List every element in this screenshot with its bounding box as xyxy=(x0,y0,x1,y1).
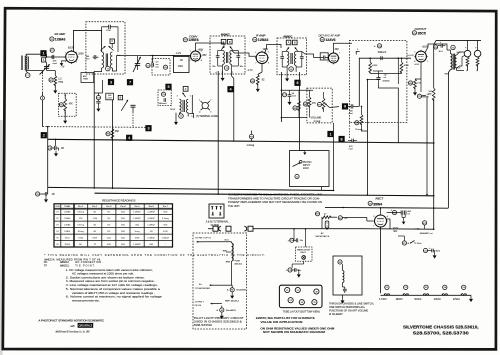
svg-text:VALUE OR APPLICATION: VALUE OR APPLICATION xyxy=(260,321,302,324)
svg-text:(T) TERMINAL GUIDE: (T) TERMINAL GUIDE xyxy=(196,115,218,118)
svg-text:12BA6: 12BA6 xyxy=(64,224,71,227)
resistor 400 ohm line xyxy=(423,221,427,225)
svg-text:with: with xyxy=(70,325,75,328)
capacitor 20mf xyxy=(290,238,294,242)
svg-text:7: 7 xyxy=(339,53,340,55)
V3 cathode resistor 82 xyxy=(250,79,254,83)
B- return bus A xyxy=(48,187,334,190)
svg-text:1: 1 xyxy=(199,100,200,102)
T4 coils xyxy=(287,52,289,66)
diode load line xyxy=(281,89,313,91)
svg-text:4. Line voltage maintained at: 4. Line voltage maintained at 117 volts … xyxy=(66,283,158,287)
svg-text:117V: 117V xyxy=(393,227,399,230)
svg-text:1 meg: 1 meg xyxy=(314,120,321,123)
ground under 47K xyxy=(63,118,67,124)
T3 coils xyxy=(223,51,225,65)
svg-text:1: 1 xyxy=(329,132,331,136)
tap wires xyxy=(231,261,233,285)
svg-text:IF AMP: IF AMP xyxy=(256,33,265,37)
svg-text:ONE SWITCH PERFORMS-ALL: ONE SWITCH PERFORMS-ALL xyxy=(329,306,366,309)
switch S1A xyxy=(402,241,406,245)
terminal boxes A B xyxy=(221,39,226,44)
ground V3 cathode xyxy=(256,87,260,93)
wire V1 plate to T1 xyxy=(74,30,102,52)
svg-text:45Ω: 45Ω xyxy=(107,244,111,246)
wire T3 secondary to V3 grid xyxy=(232,51,257,57)
svg-text:THROUGH CHASSIS & LINE SWITCH,: THROUGH CHASSIS & LINE SWITCH, xyxy=(329,302,374,305)
resistor 150 ohm xyxy=(408,81,412,85)
svg-text:20VAC: 20VAC xyxy=(434,298,441,301)
tube V4 envelope xyxy=(329,53,339,63)
svg-text:1.08KΩ*: 1.08KΩ* xyxy=(147,237,155,239)
V4 plate feed xyxy=(334,43,353,53)
wire screen feed B+ xyxy=(433,99,435,196)
tube layout box xyxy=(279,285,322,307)
svg-text:3. Measured values are from s: 3. Measured values are from socket pin t… xyxy=(66,279,155,283)
svg-text:6: 6 xyxy=(201,51,202,53)
svg-text:TUBE: TUBE xyxy=(64,206,70,208)
terminal guide box xyxy=(209,204,224,218)
heater string wire xyxy=(381,294,472,296)
IF transformer T1 dashed box xyxy=(86,22,125,74)
svg-text:mmf: mmf xyxy=(349,148,353,150)
tube V6 envelope xyxy=(375,215,387,227)
svg-text:5. Nominal tolerance of compo: 5. Nominal tolerance of component values… xyxy=(66,287,161,291)
svg-text:45Ω: 45Ω xyxy=(107,237,111,239)
wire to B+ bus xyxy=(366,80,368,195)
wire AF to output grid xyxy=(359,58,368,106)
svg-text:1.08KΩ*: 1.08KΩ* xyxy=(147,218,155,220)
tube V3 envelope xyxy=(256,52,268,64)
svg-text:2. Socket connections are sho: 2. Socket connections are shown as botto… xyxy=(66,275,145,279)
ground below T3 xyxy=(222,71,224,76)
svg-text:4: 4 xyxy=(414,61,415,63)
AVC return node xyxy=(41,96,45,100)
oscillator box xyxy=(174,57,190,73)
svg-text:TO PIN 7 OF V1: TO PIN 7 OF V1 xyxy=(195,238,212,240)
svg-text:470K: 470K xyxy=(404,65,410,67)
svg-text:AC voltages measured at 1000 o: AC voltages measured at 1000 ohms per vo… xyxy=(72,272,134,276)
svg-text:Pin 1: Pin 1 xyxy=(78,206,84,208)
svg-text:5: 5 xyxy=(76,52,77,54)
heater V5 xyxy=(462,285,466,289)
svg-text:PHONO: PHONO xyxy=(303,162,312,164)
svg-text:0Ω: 0Ω xyxy=(93,231,96,233)
fuse M2 xyxy=(338,216,342,220)
svg-text:NO CONNECTION .: NO CONNECTION . xyxy=(75,261,103,264)
ground below switch box xyxy=(342,295,344,298)
svg-text:26Ω: 26Ω xyxy=(121,212,125,214)
dashed link down xyxy=(348,123,350,140)
T4 designator xyxy=(289,67,294,72)
pin bracket 5 xyxy=(356,51,359,54)
node 9 xyxy=(342,103,348,109)
tube layout sockets xyxy=(285,287,290,292)
variable capacitor C1B osc gang xyxy=(135,63,140,65)
screen dropping resistor xyxy=(432,88,435,101)
svg-text:12BE6: 12BE6 xyxy=(64,218,71,220)
svg-text:2: 2 xyxy=(43,134,45,138)
svg-text:12BA6: 12BA6 xyxy=(64,211,71,214)
svg-text:TO PIN 7: TO PIN 7 xyxy=(195,302,205,304)
svg-text:NC: NC xyxy=(107,231,110,233)
svg-text:1.08KΩ*: 1.08KΩ* xyxy=(147,225,155,227)
boxed label 100mmf xyxy=(106,93,114,100)
wire B- vertical from T1 xyxy=(93,74,95,189)
svg-text:10meg: 10meg xyxy=(78,231,84,233)
svg-text:528.53700: 528.53700 xyxy=(194,324,213,327)
svg-text:7: 7 xyxy=(65,62,66,64)
svg-text:NUMBERS ASSIGNED TO COILS, SWI: NUMBERS ASSIGNED TO COILS, SWITCHES, FUS… xyxy=(228,194,322,197)
wire T4 left leg down xyxy=(280,72,282,122)
AC line to rectifier plate xyxy=(360,228,434,231)
svg-text:OF V6: OF V6 xyxy=(195,305,202,307)
svg-text:DET-AVC-AF AMP: DET-AVC-AF AMP xyxy=(319,33,341,37)
capacitor BLU + xyxy=(441,44,442,48)
svg-text:-6V: -6V xyxy=(180,60,184,62)
svg-text:3: 3 xyxy=(268,63,269,65)
resistor 10 meg grid xyxy=(355,121,359,125)
svg-text:2W: 2W xyxy=(428,93,431,95)
svg-text:SILVERTONE CHASSIS 528.53610,: SILVERTONE CHASSIS 528.53610, xyxy=(403,324,479,330)
printed circuit dashed box xyxy=(349,41,407,123)
resistor 47 ohm AC branch xyxy=(315,212,319,216)
B+ takeoff bus xyxy=(325,206,448,209)
pin bracket 3 xyxy=(189,114,193,119)
capacitor .02 xyxy=(376,78,380,80)
svg-text:BLU: BLU xyxy=(225,240,230,242)
svg-text:TIE POINT.: TIE POINT. xyxy=(75,265,95,268)
svg-text:1: 1 xyxy=(327,53,328,55)
svg-text:30s: 30s xyxy=(240,66,243,68)
ground under 30mf xyxy=(433,253,437,259)
ground below T4 xyxy=(286,72,288,76)
svg-text:NC: NC xyxy=(107,218,110,220)
wire T3 ground-leg to B+ bus xyxy=(217,71,219,194)
svg-text:&#8212;: &#8212; xyxy=(60,265,70,268)
svg-text:39V: 39V xyxy=(335,48,340,51)
svg-text:528.53700, 528.53730: 528.53700, 528.53730 xyxy=(413,331,469,337)
svg-text:48VAC: 48VAC xyxy=(396,298,403,301)
coil L1 designator xyxy=(25,73,30,78)
terminal box A1 xyxy=(183,86,188,91)
svg-text:-1.7V: -1.7V xyxy=(247,70,253,72)
svg-text:7: 7 xyxy=(255,63,256,65)
svg-text:1: 1 xyxy=(65,53,66,55)
svg-text:12BE6: 12BE6 xyxy=(188,38,199,42)
svg-text:1.08KΩ*: 1.08KΩ* xyxy=(162,237,170,239)
svg-text:35W4: 35W4 xyxy=(65,244,71,246)
svg-text:1.08KΩ*: 1.08KΩ* xyxy=(133,212,141,214)
capacitor 470mmf at bus xyxy=(352,139,353,143)
svg-text:50VAC: 50VAC xyxy=(414,298,421,301)
V6 heater string feed xyxy=(380,227,382,293)
T1 designator xyxy=(106,66,111,71)
ground under C3 xyxy=(96,106,100,112)
svg-text:560mmf: 560mmf xyxy=(159,103,167,105)
svg-text:&#169;Howard W. Sams &amp; Co.: &#169;Howard W. Sams &amp; Co., Inc. 196… xyxy=(56,329,90,333)
svg-text:NC: NC xyxy=(107,212,110,214)
node 6 and dropper xyxy=(298,72,300,151)
svg-text:1.08KΩ*: 1.08KΩ* xyxy=(133,218,141,220)
trimmer dashed box xyxy=(152,59,170,75)
svg-text:12AV6: 12AV6 xyxy=(325,38,335,42)
svg-text:V2: V2 xyxy=(297,290,299,292)
svg-text:V1: V1 xyxy=(286,290,288,292)
svg-text:33Ω: 33Ω xyxy=(149,244,153,246)
svg-text:3: 3 xyxy=(76,62,77,64)
variable capacitor C1B gang arrow xyxy=(121,100,128,111)
svg-text:46K: 46K xyxy=(115,130,120,133)
terminal guide spider xyxy=(202,102,208,108)
svg-text:M: M xyxy=(221,310,223,312)
svg-text:1.08KΩ*: 1.08KΩ* xyxy=(133,244,141,246)
svg-text:variation of &#177;15% in volt: variation of &#177;15% in voltage and re… xyxy=(72,291,155,295)
svg-text:mmf: mmf xyxy=(53,63,58,65)
wire stub bus to C4 xyxy=(55,139,57,146)
svg-text:3: 3 xyxy=(373,216,374,218)
terminal box A xyxy=(42,58,46,62)
svg-text:3.3meg: 3.3meg xyxy=(162,218,169,220)
AVC bus (dashed) xyxy=(43,126,147,129)
speaker jacks xyxy=(464,50,471,57)
svg-text:150Ω: 150Ω xyxy=(78,237,83,239)
svg-text:12BA6: 12BA6 xyxy=(258,38,269,42)
svg-text:-1.2V: -1.2V xyxy=(176,53,182,55)
svg-text:26Ω: 26Ω xyxy=(121,237,125,239)
capacitor 50mf cathode xyxy=(417,94,421,98)
svg-text:5: 5 xyxy=(268,52,269,54)
svg-text:A & B (T) TERMINAL: A & B (T) TERMINAL xyxy=(206,219,229,223)
svg-text:1. DC voltage measurements ta: 1. DC voltage measurements taken with va… xyxy=(66,268,153,272)
T1 primary coil xyxy=(102,52,104,68)
svg-text:C: C xyxy=(111,40,113,43)
svg-text:22K: 22K xyxy=(79,218,83,220)
wire volume cold to bus A xyxy=(333,123,335,190)
svg-text:47K: 47K xyxy=(69,103,74,105)
V5 plate to T5 xyxy=(425,44,447,52)
node 2 xyxy=(41,132,47,138)
AC line wire xyxy=(253,228,360,230)
svg-text:GUIDE: GUIDE xyxy=(211,223,220,227)
svg-text:6: 6 xyxy=(296,81,298,85)
B- bus (main horizontal) xyxy=(48,139,434,143)
svg-text:mmf: mmf xyxy=(85,58,89,60)
svg-text:measurements.: measurements. xyxy=(72,298,100,302)
svg-text:BRN: BRN xyxy=(226,262,231,264)
svg-text:35C5: 35C5 xyxy=(65,237,71,239)
wire AVC dropper xyxy=(112,100,114,189)
svg-text:FUNCTIONS OF ON-OFF VOLUME: FUNCTIONS OF ON-OFF VOLUME xyxy=(329,310,368,312)
svg-text:1meg: 1meg xyxy=(135,231,140,233)
svg-text:7: 7 xyxy=(373,226,374,228)
wire: loop top to grid xyxy=(26,53,47,55)
svg-text:1.3meg: 1.3meg xyxy=(247,145,255,147)
T4 slug arrows xyxy=(286,47,289,51)
T3 side capacitors xyxy=(216,56,220,57)
svg-text:455KC: 455KC xyxy=(283,34,292,38)
svg-text:AC: AC xyxy=(321,232,324,235)
capacitor 30mf xyxy=(423,248,427,252)
svg-text:400&#937; int: 400&#937; int xyxy=(420,232,433,235)
T1 secondary coil xyxy=(110,52,112,68)
svg-text:TRIM: TRIM xyxy=(83,79,88,81)
svg-text:70m&#937;: 70m&#937; xyxy=(236,290,247,292)
capacitor 56mmf + ground xyxy=(282,93,286,97)
wire rect misc xyxy=(433,196,435,229)
wire cathode bypass return xyxy=(426,96,429,194)
node 3 xyxy=(108,79,114,85)
B+ bus B xyxy=(95,193,434,196)
svg-text:12BA6: 12BA6 xyxy=(55,37,66,41)
svg-text:1: 1 xyxy=(255,52,256,54)
terminal box B xyxy=(118,95,122,99)
svg-text:INPUT: INPUT xyxy=(303,165,310,167)
svg-text:270K: 270K xyxy=(106,30,112,32)
V5 cathode network xyxy=(420,63,422,79)
svg-text:2: 2 xyxy=(190,60,191,62)
ground at phono jack xyxy=(299,150,304,152)
wire V2 grid line xyxy=(150,55,191,57)
wire diode return xyxy=(281,117,307,119)
coupling capacitor .005 xyxy=(351,104,353,108)
panel lamp xyxy=(302,256,306,260)
svg-text:mmf: mmf xyxy=(108,98,112,100)
svg-text:12VAC: 12VAC xyxy=(453,298,460,301)
V6 plate lead xyxy=(387,219,391,229)
svg-text:1: 1 xyxy=(190,51,191,53)
svg-text:82Ω: 82Ω xyxy=(163,212,167,214)
svg-text:20s: 20s xyxy=(300,240,303,242)
capacitor C11 .05 on A xyxy=(36,192,40,196)
svg-text:460-W-1: 460-W-1 xyxy=(235,263,244,265)
svg-text:18.5V: 18.5V xyxy=(170,109,176,111)
wire T4 secondary to detector xyxy=(302,52,318,58)
svg-text:-.7V: -.7V xyxy=(60,66,65,69)
svg-text:26Ω: 26Ω xyxy=(121,225,125,227)
svg-text:OSC: OSC xyxy=(178,65,183,68)
node 1 (CircuiTrace) xyxy=(40,50,46,56)
capacitor C1 470mmf xyxy=(52,55,54,59)
tube V1 envelope xyxy=(66,51,78,63)
svg-text:1.3M: 1.3M xyxy=(92,218,97,220)
svg-text:26Ω: 26Ω xyxy=(121,231,125,233)
svg-text:JACK: JACK xyxy=(303,167,309,170)
node 4b xyxy=(126,135,132,141)
resistor 470K left xyxy=(369,62,372,73)
resistor 47K AVC filter + dashed box xyxy=(59,93,77,116)
node 5 xyxy=(165,84,171,90)
svg-text:TP: TP xyxy=(44,265,48,268)
svg-text:CIRCUITRACE: CIRCUITRACE xyxy=(79,325,93,328)
filter capacitor C12 xyxy=(392,211,396,215)
svg-text:7: 7 xyxy=(129,81,131,85)
svg-text:3.3meg: 3.3meg xyxy=(77,212,84,214)
svg-text:2: 2 xyxy=(210,100,211,102)
svg-text:500mmf: 500mmf xyxy=(378,52,387,54)
node 7 xyxy=(127,79,133,85)
svg-text:Pin 3: Pin 3 xyxy=(106,206,112,208)
svg-text:trim: trim xyxy=(156,65,160,68)
capacitor 25mf xyxy=(288,268,292,272)
output transformer T5 xyxy=(451,45,455,49)
svg-text:26Ω: 26Ω xyxy=(121,244,125,246)
T5 primary wiring xyxy=(449,50,451,54)
resistor 47K xyxy=(303,102,307,106)
svg-text:2: 2 xyxy=(414,52,415,54)
trimmer designator xyxy=(163,65,167,69)
svg-text:F-5.2V: F-5.2V xyxy=(408,55,415,57)
node 4 xyxy=(232,71,234,142)
V5 grid line xyxy=(368,57,411,59)
oscillator coil T-osc xyxy=(179,99,181,113)
terminal boxes A B xyxy=(286,40,291,45)
wire volume wiper to node 9 xyxy=(330,106,340,109)
ground under R1 xyxy=(53,88,57,94)
resistor R3 46K on AVC xyxy=(106,132,110,136)
svg-text:PANEL/DOOR: PANEL/DOOR xyxy=(297,248,310,251)
svg-text:10 meg: 10 meg xyxy=(355,129,363,131)
plate top rail xyxy=(436,39,481,41)
wire T1 secondary to V2 grid xyxy=(112,56,150,71)
heater V2 xyxy=(404,285,408,289)
svg-text:0Ω: 0Ω xyxy=(150,231,153,233)
svg-text:TO RECEIVER: TO RECEIVER xyxy=(195,288,210,290)
capacitor 560mmf + dashed box xyxy=(158,90,171,106)
svg-text:3.3meg: 3.3meg xyxy=(77,225,84,227)
svg-text:12AV6: 12AV6 xyxy=(64,230,71,233)
svg-text:mmf: mmf xyxy=(292,95,296,97)
svg-text:LIGHT: LIGHT xyxy=(300,252,307,254)
svg-text:* THIS READING WILL VARY DEPE: * THIS READING WILL VARY DEPENDING UPON … xyxy=(44,253,265,257)
svg-text:8: 8 xyxy=(341,137,343,141)
wire box bottom to bus A xyxy=(320,187,322,191)
svg-text:70m&#937;: 70m&#937; xyxy=(226,310,237,312)
wire V1 cathode xyxy=(62,60,67,62)
T3 designator xyxy=(224,66,229,71)
capacitor C3 + designator xyxy=(96,96,100,100)
svg-text:28s: 28s xyxy=(212,66,215,68)
svg-text:RECEPTACLE: RECEPTACLE xyxy=(316,235,330,238)
node 8 xyxy=(339,136,345,142)
svg-text:45Ω: 45Ω xyxy=(135,225,139,227)
ground under C11 xyxy=(44,197,48,203)
svg-text:RF AMP: RF AMP xyxy=(55,32,66,36)
volume control R7 1 meg xyxy=(317,102,321,106)
svg-text:&#9679; SEE PARTS LIST FOR ALT: &#9679; SEE PARTS LIST FOR ALTERNATE xyxy=(256,317,315,320)
resistor 1.3meg AVC xyxy=(249,134,253,138)
resistor 470K right xyxy=(400,62,403,73)
AC interlock plug xyxy=(208,228,213,230)
wire down to AV node xyxy=(47,127,49,188)
svg-text:meg: meg xyxy=(58,80,63,83)
box detail below T1 xyxy=(81,73,94,83)
pilot transformer winding xyxy=(231,242,233,243)
svg-text:470K: 470K xyxy=(163,231,168,233)
svg-text:Pin 5: Pin 5 xyxy=(135,206,141,208)
capacitor 360mmf xyxy=(94,55,96,59)
svg-text:70c/s: 70c/s xyxy=(417,243,422,245)
heater V1 xyxy=(385,285,389,289)
svg-text:2: 2 xyxy=(327,62,328,64)
heater V4 xyxy=(443,285,447,289)
svg-text:THE UNIT.: THE UNIT. xyxy=(228,205,240,208)
svg-text:NC: NC xyxy=(44,261,48,264)
svg-text:NC: NC xyxy=(79,244,82,246)
T1 slug arrows xyxy=(101,46,106,51)
svg-text:PART 460-W-3: PART 460-W-3 xyxy=(225,300,240,303)
panel light dashed box xyxy=(296,247,313,261)
